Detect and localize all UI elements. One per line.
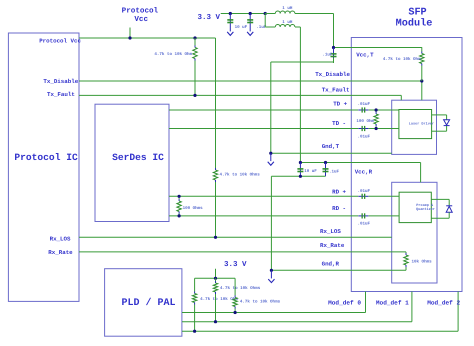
block laser driver outer [392,100,437,154]
svg-text:4.7k to 10k Ohms: 4.7k to 10k Ohms [240,299,281,305]
svg-text:Mod_def 2: Mod_def 2 [427,299,460,306]
node Gnd,T junction [269,152,272,155]
resistor R pull-up Tx_Disable 4.7k to 10k Ohm (inside SFP) [420,47,424,81]
wire Vcc,T net [334,47,422,49]
ground (Gnd,R) [268,270,274,282]
svg-text:.1uF: .1uF [322,53,333,58]
svg-text:10 uF: 10 uF [304,169,317,174]
svg-text:SFP: SFP [408,8,426,19]
resistor R pull-up Rx_LOS 4.7k to 10k Ohms (on Protocol Vcc drop) [213,38,217,237]
op-amp U-laser inner block Laser Driver [399,110,434,139]
svg-text:Rx_LOS: Rx_LOS [320,228,341,235]
label SFP Module title [396,8,433,30]
inductor L2 1 uH (Vcc,R filter) [275,25,295,27]
wire L1 leads and drop to Vcc,T [265,14,333,48]
svg-text:4.7k to 10k Ohms: 4.7k to 10k Ohms [220,171,261,177]
wire Mod_def 2 net [182,292,458,332]
wire Rx_Rate net [79,251,406,253]
svg-text:.01uF: .01uF [358,189,371,194]
wire bypass cap ground bus [271,176,325,270]
node Tx_Fault junction (pull-up) [193,94,196,97]
block PLD / PAL [105,269,182,337]
resistor R pull-up Mod_def 0 4.7k to 10k Ohms [233,278,237,312]
ground (under C2) [247,32,253,36]
node Protocol Vcc junctions [128,36,196,39]
svg-text:Vcc: Vcc [134,16,148,24]
node Vcc,T junction [332,46,335,49]
svg-text:Tx_Fault: Tx_Fault [322,86,350,93]
inductor L1 1 uH (Vcc,T filter) [275,11,295,13]
svg-text:RD -: RD - [332,205,346,212]
svg-text:10 uF: 10 uF [235,25,248,30]
svg-text:4.7k to 10k Ohm: 4.7k to 10k Ohm [383,56,421,62]
node 3.3V rail junctions [229,12,267,15]
diode D2 photodiode [431,199,452,218]
wire TD + net [169,109,399,111]
capacitor C1 10 uF (3.3V bypass) [227,14,233,32]
wire RD + net [169,195,399,197]
capacitor C6 10 uF (Vcc,R bypass) [299,163,301,177]
wire Gnd,T net [271,152,392,154]
node RD junctions [178,195,181,218]
capacitor C9 .01uF (RD- coupling) [358,215,368,217]
ground (Gnd,T) [268,153,274,165]
svg-text:.01uF: .01uF [358,102,371,107]
svg-text:Rx_LOS: Rx_LOS [50,235,71,242]
svg-text:SerDes IC: SerDes IC [112,152,164,163]
wire Mod_def 1 net [182,292,412,322]
svg-text:Tx_Disable: Tx_Disable [315,71,350,78]
resistor R 10k Ohms (rate select pull-down in SFP) [404,252,408,270]
svg-text:TD -: TD - [332,120,346,127]
wire Protocol Vcc net [79,37,216,39]
svg-text:1 uH: 1 uH [282,6,293,11]
resistor R pull-up Mod_def 2 4.7k to 10k Ohm [192,278,196,331]
svg-text:1 uH: 1 uH [282,20,293,25]
wire RD - net [169,215,399,217]
node Gnd,R junction [270,269,273,272]
svg-text:Gnd,R: Gnd,R [322,261,340,268]
svg-text:4.7k to 10k Ohm: 4.7k to 10k Ohm [154,51,192,57]
block Protocol IC [8,33,79,301]
svg-text:Protocol Vcc: Protocol Vcc [39,38,81,45]
wire Tx_Disable net [79,81,422,100]
wire Rx_LOS net [79,236,392,238]
node 3.3V pull-up junction [214,277,217,280]
svg-text:.01uF: .01uF [358,221,371,226]
svg-text:.1uF: .1uF [329,170,340,175]
svg-text:TD +: TD + [333,101,347,108]
svg-text:Rx_Rate: Rx_Rate [320,242,345,249]
wire Gnd,R net [271,269,406,271]
node Rx_LOS junction [214,236,217,239]
block preamp outer [392,182,437,283]
svg-text:4.7k to 10k Ohm: 4.7k to 10k Ohm [200,296,238,302]
resistor R pull-up Mod_def 1 4.7k to 10k Ohms [213,278,217,321]
capacitor C7 .1uF (Vcc,R bypass) [325,163,327,177]
node Vcc,R junctions [299,161,327,164]
capacitor C5 .01uF (TD- coupling) [358,128,368,130]
svg-text:.01uF: .01uF [358,134,371,139]
svg-text:10k Ohms: 10k Ohms [412,258,433,264]
node Tx_Disable junction [420,79,423,82]
svg-text:Protocol IC: Protocol IC [14,152,78,163]
svg-text:Quantizer: Quantizer [416,207,435,212]
diode D1 laser diode [432,115,450,131]
svg-text:Vcc,R: Vcc,R [355,169,373,176]
svg-text:Laser Driver: Laser Driver [409,121,434,126]
svg-text:3.3 V: 3.3 V [198,13,221,22]
resistor R 100 Ohm (TD termination in SFP) [374,110,378,129]
svg-text:Module: Module [396,18,433,30]
svg-text:3.3 V: 3.3 V [224,260,247,269]
svg-text:4.7k to 10k Ohms: 4.7k to 10k Ohms [220,285,261,291]
capacitor C4 .01uF (TD+ coupling) [358,109,368,111]
wire 3.3V pull-up bus [195,277,236,279]
svg-text:RD +: RD + [332,188,346,195]
svg-text:Mod_def 1: Mod_def 1 [376,299,409,306]
op-amp U-preamp inner block Preamp & Quantizer [399,192,435,222]
capacitor C3 .1uF (Vcc,T bypass) [331,48,337,64]
resistor R pull-up Tx_Fault 4.7k to 10k Ohm [193,38,197,95]
svg-text:100 Ohm: 100 Ohm [356,118,374,124]
power symbol Protocol Vcc [122,7,159,38]
svg-text:PLD / PAL: PLD / PAL [122,297,176,309]
svg-text:100 Ohms: 100 Ohms [183,205,204,211]
node Mod_def junctions [193,311,237,333]
wire L2 leads and drop to Vcc,R [265,14,300,163]
wire TD - net [169,128,399,130]
svg-text:Rx_Rate: Rx_Rate [48,249,73,256]
capacitor C8 .01uF (RD+ coupling) [358,195,368,197]
svg-text:Protocol: Protocol [122,7,159,16]
wire Tx_Fault net [79,95,401,100]
svg-text:Vcc,T: Vcc,T [356,51,374,58]
node bypass ground junction [299,175,302,178]
svg-text:Gnd,T: Gnd,T [322,143,340,150]
block SFP Module outline [351,38,462,292]
svg-text:Mod_def 0: Mod_def 0 [328,299,361,306]
power symbol 3.3 V (bottom) [216,260,248,279]
wire Vcc,R net [300,163,420,183]
wire C3 to Gnd,T [271,62,334,153]
node TD junctions [375,108,378,130]
wire 3.3 V rail (top) [221,13,266,15]
svg-text:Tx_Disable: Tx_Disable [43,78,78,85]
capacitor C2 .1uF (3.3V bypass) [247,14,253,32]
resistor R 100 Ohms (RD termination at SerDes) [177,196,181,216]
svg-text:Tx_Fault: Tx_Fault [47,91,75,98]
wire Mod_def 0 net [182,292,366,313]
ground (under C1) [227,32,233,36]
block SerDes IC [95,104,169,221]
